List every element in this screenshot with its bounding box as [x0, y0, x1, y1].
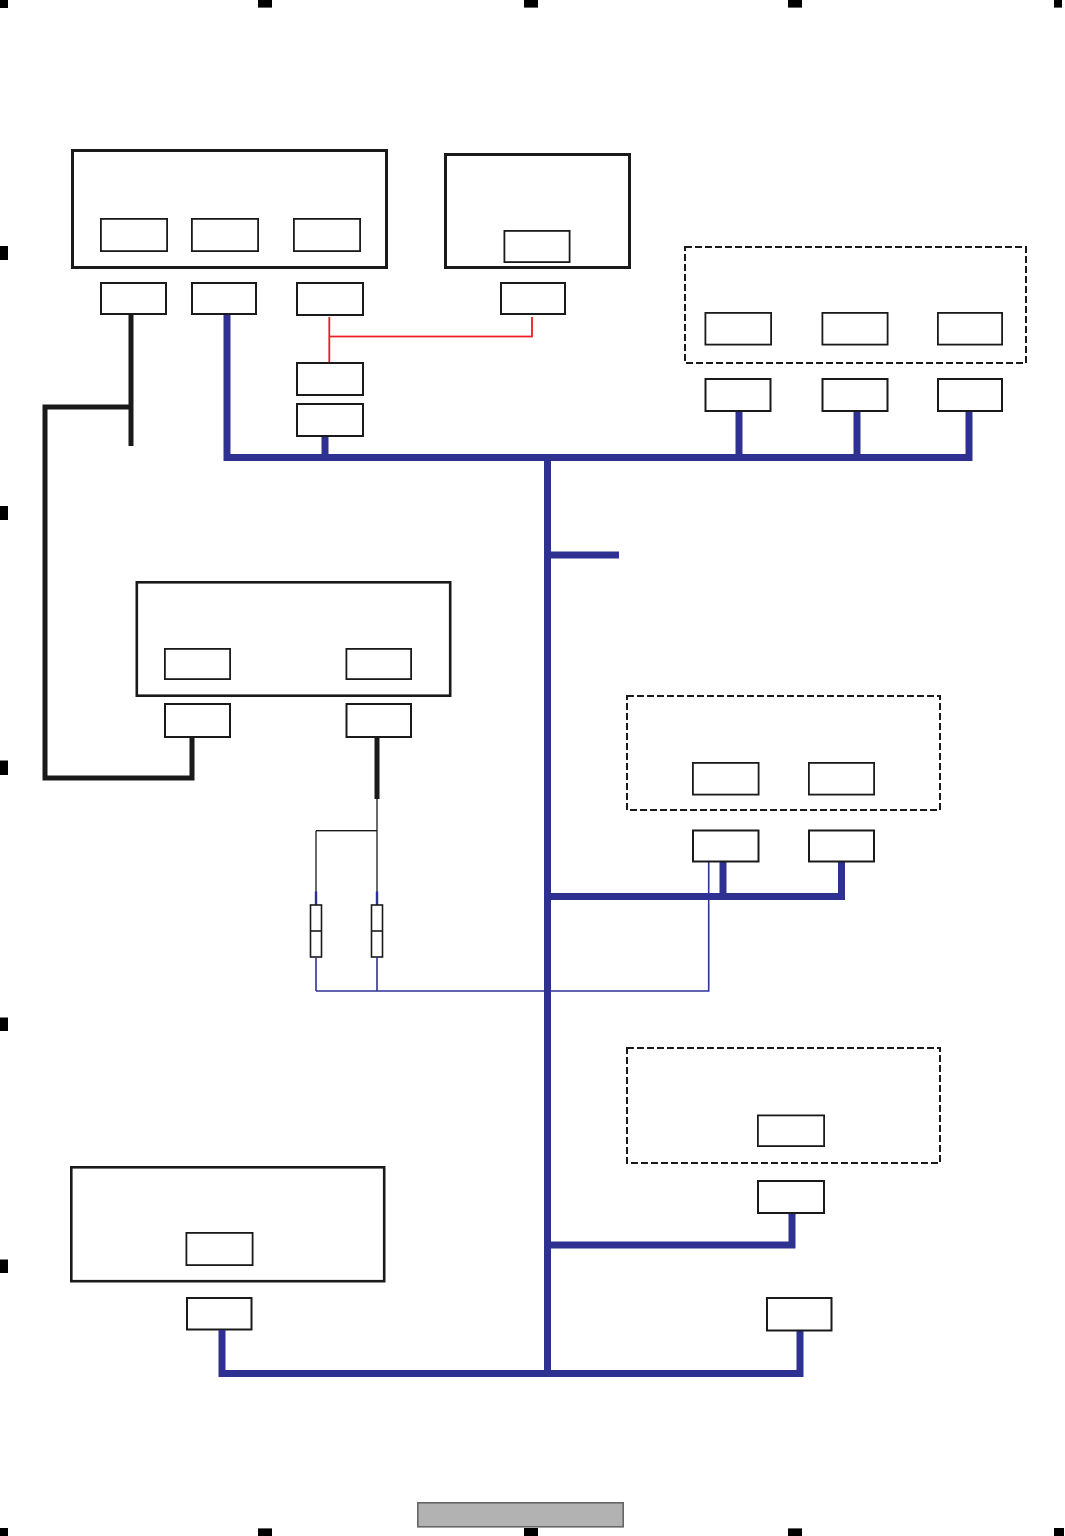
connector C3 [297, 283, 363, 315]
blue stub branch off trunk [548, 552, 620, 559]
thin blue wire from fuses to connector C10 [316, 863, 709, 992]
connector C13 [187, 1298, 252, 1330]
black wire loop from C1 junction to connector C8 [45, 407, 192, 778]
title block (gray) [418, 1503, 623, 1527]
black wire from C9 down [375, 738, 380, 799]
connector C6 [823, 379, 888, 411]
fuse F1 [311, 905, 322, 957]
connector C2 [192, 283, 256, 314]
blue wire from C5 to bus [736, 412, 743, 458]
connector C10 [693, 831, 759, 862]
port D1c [938, 313, 1002, 345]
port B1 [504, 231, 569, 262]
blue wire from C6 to bus [854, 412, 861, 458]
blue trunk wire (main vertical) [544, 454, 551, 1374]
red wire from C3 to relay and to C4 [329, 317, 532, 362]
port D2a [693, 763, 759, 795]
unit box A (top-left ECU) [73, 151, 387, 268]
connector C8 [165, 704, 230, 737]
unit box F (bottom-left) [71, 1167, 384, 1281]
relay box R1 [297, 363, 363, 395]
port A3 [294, 219, 360, 251]
port A1 [101, 219, 167, 251]
dashed box D1 (top-right) [685, 247, 1026, 363]
blue bus2 wire from C11 to trunk [548, 863, 842, 897]
blue pin into fuse F2 [376, 892, 378, 907]
port D3a [758, 1115, 824, 1146]
port E2 [346, 649, 411, 679]
connector C11 [809, 831, 874, 862]
connector C7 [938, 379, 1002, 411]
fuse F2 [372, 905, 383, 957]
port D1b [822, 313, 887, 345]
blue wire from relay R2 to bus [322, 437, 329, 458]
blue wire from C10 to bus2 [720, 863, 727, 901]
connector C4 [501, 283, 565, 314]
dashed box D2 (middle-right) [627, 696, 940, 810]
unit box B (top-middle) [446, 155, 630, 268]
port E1 [165, 649, 230, 679]
connector C1 [101, 283, 166, 314]
relay box R2 [297, 404, 363, 436]
black wire from C1 (stub) [129, 315, 134, 446]
port D1a [705, 313, 771, 345]
blue bus4 wire from C13 to C14 along bottom [222, 1330, 800, 1374]
thin black wire from C9 wire to fuse branch [316, 799, 377, 892]
blue wire from C2 along main bus to C7 [227, 315, 969, 458]
connector C14 [767, 1298, 832, 1331]
unit box E (mid-left) [137, 582, 450, 695]
port A2 [192, 219, 258, 251]
connector C5 [706, 379, 771, 411]
blue bus3 wire from C12 to trunk [548, 1214, 793, 1245]
connector C12 [758, 1181, 824, 1213]
connector C9 [347, 704, 412, 737]
blue pin into fuse F1 [315, 892, 317, 907]
port D2b [809, 763, 874, 795]
port F1 [186, 1233, 252, 1265]
dashed box D3 (lower-right) [627, 1048, 940, 1163]
